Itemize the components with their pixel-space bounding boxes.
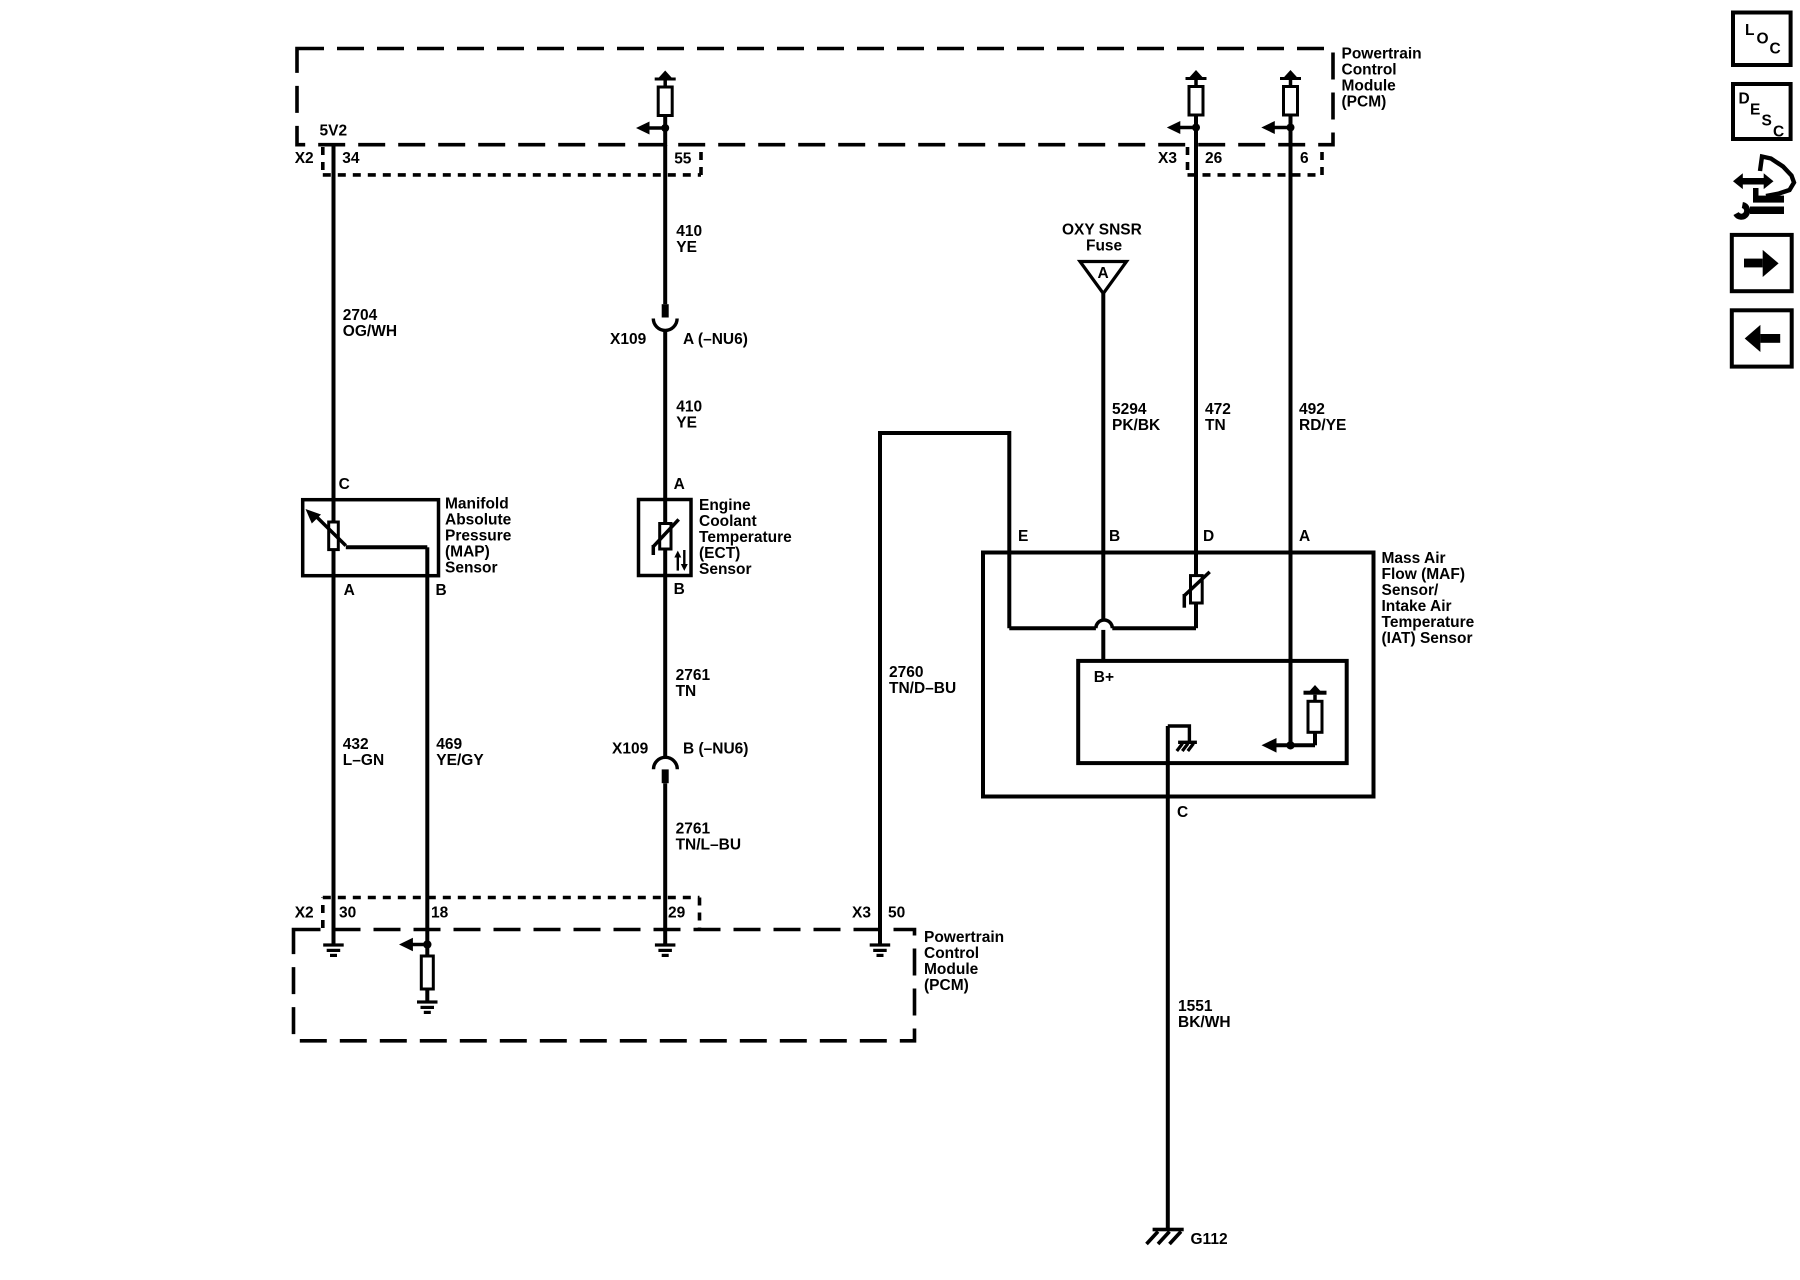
- svg-text:492: 492: [1299, 401, 1325, 418]
- connector strip X2 top (dotted): [323, 147, 701, 175]
- connector X3 bottom labels: [852, 905, 905, 922]
- svg-text:C: C: [1770, 41, 1781, 58]
- icon left arrow box: [1732, 310, 1792, 366]
- svg-text:A: A: [674, 476, 685, 493]
- svg-text:432: 432: [343, 736, 369, 753]
- svg-text:C: C: [1773, 124, 1784, 141]
- module PCM bottom dashed box: [294, 930, 915, 1041]
- svg-text:50: 50: [888, 905, 905, 922]
- fuse OXY SNSR triangle symbol: [1080, 262, 1127, 294]
- inline connector X109 pin A: [653, 304, 677, 330]
- svg-text:BK/WH: BK/WH: [1178, 1014, 1231, 1031]
- wire 2761 TN/L-BU (X109 B to pin 29): [663, 783, 667, 943]
- ECT sensor label: [699, 497, 792, 578]
- wire E internal with hop over B: [1009, 553, 1196, 629]
- label 410 YE upper: [676, 223, 702, 256]
- svg-text:PK/BK: PK/BK: [1112, 417, 1161, 434]
- svg-text:(MAP): (MAP): [445, 544, 490, 561]
- svg-text:18: 18: [431, 905, 449, 922]
- svg-text:2760: 2760: [889, 664, 923, 681]
- MAP sensor label: [445, 496, 512, 577]
- svg-text:X3: X3: [1158, 150, 1177, 167]
- svg-text:Flow (MAF): Flow (MAF): [1382, 566, 1466, 583]
- connector strip X2 bottom (dotted): [323, 898, 700, 929]
- svg-text:X2: X2: [295, 150, 314, 167]
- MAF/IAT sensor outer box: [983, 553, 1374, 797]
- svg-text:5294: 5294: [1112, 401, 1147, 418]
- label 1551 BK/WH: [1178, 998, 1231, 1031]
- label 2704 OG/WH: [343, 307, 397, 340]
- svg-text:S: S: [1762, 113, 1772, 130]
- svg-text:(ECT): (ECT): [699, 545, 740, 562]
- svg-text:L–GN: L–GN: [343, 752, 384, 769]
- MAF/IAT sensor label: [1382, 550, 1475, 647]
- svg-text:Module: Module: [924, 961, 979, 978]
- svg-text:26: 26: [1205, 150, 1223, 167]
- ground at pin 29: [655, 943, 676, 957]
- svg-text:Pressure: Pressure: [445, 528, 512, 545]
- svg-text:2704: 2704: [343, 307, 378, 324]
- chassis ground inside MAF: [1168, 726, 1197, 751]
- MAF inner box: [1078, 661, 1347, 763]
- svg-text:Temperature: Temperature: [699, 529, 792, 546]
- svg-text:410: 410: [676, 223, 702, 240]
- svg-text:Coolant: Coolant: [699, 513, 757, 530]
- label 2761 TN: [676, 667, 711, 700]
- svg-text:B: B: [674, 581, 685, 598]
- label 5294 PK/BK: [1112, 401, 1161, 434]
- PCM top label: [1342, 46, 1422, 111]
- PCM bottom label: [924, 929, 1004, 994]
- svg-text:A: A: [1299, 528, 1310, 545]
- svg-text:34: 34: [342, 150, 360, 167]
- svg-text:469: 469: [436, 736, 462, 753]
- resistor in PCM at pin 6 with feed arrow: [1261, 70, 1301, 134]
- connector X2 top labels: [295, 150, 692, 168]
- svg-text:YE: YE: [676, 239, 697, 256]
- svg-text:B: B: [436, 582, 447, 599]
- svg-text:2761: 2761: [676, 667, 711, 684]
- svg-text:L: L: [1745, 22, 1754, 39]
- icon DESC box: [1733, 84, 1791, 141]
- svg-text:(PCM): (PCM): [924, 977, 969, 994]
- thermistor inside ECT (wire through): [653, 500, 688, 576]
- wire 1551 BK/WH (MAF C to G112): [1166, 726, 1170, 1228]
- svg-text:TN: TN: [676, 683, 697, 700]
- svg-text:6: 6: [1300, 150, 1309, 167]
- svg-text:Powertrain: Powertrain: [1342, 46, 1422, 63]
- wire 492 RD/YE (pin 6 to MAF A): [1289, 115, 1293, 745]
- svg-text:O: O: [1757, 31, 1769, 48]
- wire 432 L-GN (MAP A to pin 30): [332, 576, 336, 944]
- svg-text:Fuse: Fuse: [1086, 238, 1123, 255]
- svg-text:TN/L–BU: TN/L–BU: [676, 837, 741, 854]
- svg-text:C: C: [1177, 804, 1188, 821]
- wire 5294 PK/BK (fuse to MAF B): [1101, 294, 1105, 620]
- icon right arrow box: [1732, 235, 1792, 291]
- inline connector X109 pin B: [654, 757, 678, 783]
- label 410 YE lower: [676, 399, 702, 432]
- label 432 L-GN: [343, 736, 384, 769]
- svg-text:1551: 1551: [1178, 998, 1213, 1015]
- resistor in PCM at pin 26 with feed arrow: [1167, 70, 1207, 134]
- resistor in PCM at pin 55 with feed arrow: [636, 71, 676, 147]
- ground at pin 50: [870, 943, 891, 957]
- svg-text:A: A: [1098, 265, 1109, 282]
- label 492 RD/YE: [1299, 401, 1346, 434]
- resistor inside MAF with feed arrow: [1262, 685, 1327, 753]
- potentiometer inside MAP (wire through): [306, 500, 428, 576]
- svg-text:Absolute: Absolute: [445, 512, 512, 529]
- svg-text:G112: G112: [1191, 1231, 1228, 1248]
- svg-text:TN/D–BU: TN/D–BU: [889, 680, 956, 697]
- svg-text:Intake Air: Intake Air: [1382, 598, 1452, 615]
- svg-text:(PCM): (PCM): [1342, 93, 1387, 110]
- X109 B labels: [612, 741, 748, 758]
- svg-text:Sensor: Sensor: [445, 560, 498, 577]
- wire 2704 OG/WH (pin 34 to MAP C): [332, 145, 336, 500]
- module PCM top dashed box: [297, 49, 1333, 145]
- svg-text:YE: YE: [676, 415, 697, 432]
- icon LOC box: [1733, 13, 1791, 66]
- wire 410 YE (X109 A to ECT A): [663, 330, 667, 499]
- MAP sensor box: [303, 500, 439, 576]
- ground at pin 30: [323, 943, 344, 957]
- X109 A labels: [610, 331, 748, 348]
- svg-text:B (–NU6): B (–NU6): [683, 741, 748, 758]
- svg-text:Temperature: Temperature: [1382, 614, 1475, 631]
- svg-text:D: D: [1203, 528, 1214, 545]
- svg-text:472: 472: [1205, 401, 1231, 418]
- svg-text:RD/YE: RD/YE: [1299, 417, 1346, 434]
- wire 2761 TN (ECT B to X109 B): [663, 576, 667, 758]
- svg-text:30: 30: [339, 905, 356, 922]
- svg-text:C: C: [339, 476, 350, 493]
- svg-text:29: 29: [668, 905, 686, 922]
- svg-text:D: D: [1739, 91, 1750, 108]
- label 2760 TN/D-BU: [889, 664, 956, 697]
- svg-text:Control: Control: [924, 945, 979, 962]
- connector strip X3 top (dotted): [1188, 147, 1323, 175]
- label 472 TN: [1205, 401, 1231, 434]
- svg-text:X3: X3: [852, 905, 871, 922]
- thermistor IAT on wire D: [1184, 572, 1209, 608]
- svg-text:Engine: Engine: [699, 497, 751, 514]
- svg-text:A (–NU6): A (–NU6): [683, 331, 748, 348]
- wire 2760 TN/D-BU (MAF E to pin 50): [880, 433, 1009, 944]
- svg-text:Module: Module: [1342, 78, 1397, 95]
- svg-text:Powertrain: Powertrain: [924, 929, 1004, 946]
- wire 472 TN (pin 26 to MAF D): [1194, 115, 1198, 575]
- fuse OXY SNSR labels: [1062, 222, 1142, 255]
- svg-text:A: A: [344, 582, 355, 599]
- svg-text:B: B: [1109, 528, 1120, 545]
- connector X3 top labels: [1158, 150, 1309, 167]
- svg-text:E: E: [1018, 528, 1028, 545]
- svg-text:E: E: [1750, 102, 1760, 119]
- svg-text:TN: TN: [1205, 417, 1226, 434]
- wire 469 YE/GY (MAP B to pin 18): [425, 576, 429, 945]
- svg-text:Sensor/: Sensor/: [1382, 582, 1440, 599]
- ground G112: [1147, 1228, 1228, 1248]
- svg-text:OXY SNSR: OXY SNSR: [1062, 222, 1142, 239]
- svg-text:X109: X109: [610, 331, 647, 348]
- wire 410 YE (pin 55 to X109 A): [663, 145, 667, 304]
- svg-text:Manifold: Manifold: [445, 496, 509, 513]
- svg-text:5V2: 5V2: [320, 123, 348, 140]
- svg-text:OG/WH: OG/WH: [343, 323, 397, 340]
- connector X2 bottom labels: [295, 905, 686, 922]
- svg-text:55: 55: [674, 151, 692, 168]
- svg-text:Control: Control: [1342, 62, 1397, 79]
- svg-text:(IAT) Sensor: (IAT) Sensor: [1382, 630, 1473, 647]
- ECT sensor box: [639, 500, 692, 576]
- ground branch at pin 18: arrow, resistor, ground: [399, 938, 438, 1014]
- svg-text:Mass Air: Mass Air: [1382, 550, 1446, 567]
- svg-text:Sensor: Sensor: [699, 561, 752, 578]
- svg-text:2761: 2761: [676, 821, 711, 838]
- icon wrench with arrows: [1733, 157, 1794, 220]
- svg-text:X109: X109: [612, 741, 649, 758]
- svg-text:YE/GY: YE/GY: [436, 752, 484, 769]
- svg-text:B+: B+: [1094, 669, 1114, 686]
- svg-text:410: 410: [676, 399, 702, 416]
- label 2761 TN/L-BU: [676, 821, 741, 854]
- label 469 YE/GY: [436, 736, 484, 769]
- svg-text:X2: X2: [295, 905, 314, 922]
